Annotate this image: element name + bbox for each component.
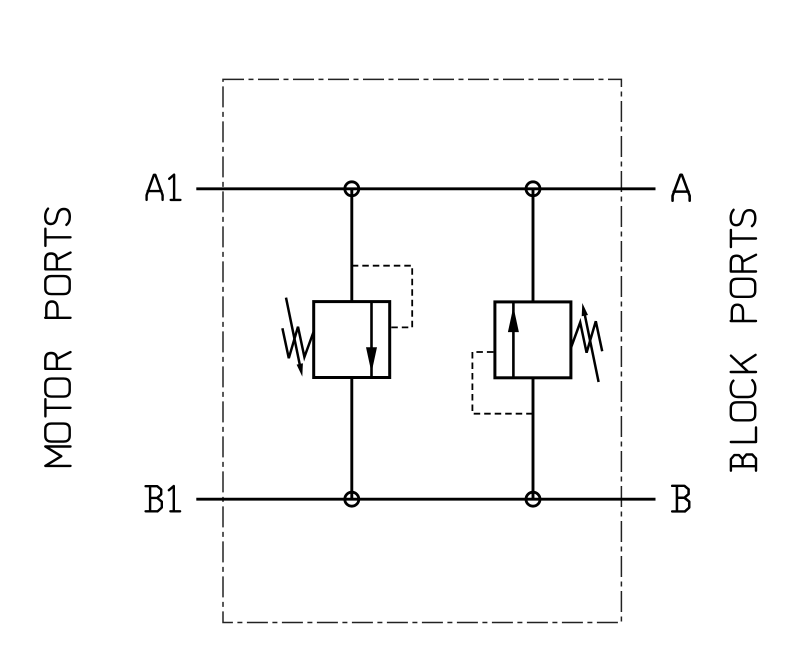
wire: left valve upper branch (350, 189, 353, 302)
relief valve V2 adjustment arrowhead (582, 303, 588, 316)
relief valve V2 spring (571, 321, 602, 353)
relief valve V1 spring (282, 327, 313, 359)
relief valve V1 adjustment arrowhead (297, 363, 303, 376)
relief valve V1 adjustment arrow shaft (286, 298, 300, 366)
label B (672, 486, 689, 512)
relief valve V1 flow arrowhead (down) (366, 347, 377, 373)
node B1 junction circle (345, 492, 359, 506)
relief valve V2 body (495, 302, 571, 378)
label MOTOR PORTS (rotated) (45, 209, 70, 466)
wire: right valve upper branch (532, 189, 535, 302)
wire: right valve lower branch (532, 378, 535, 499)
node B junction circle (526, 492, 540, 506)
label B1 (146, 486, 181, 511)
node A1 junction circle (345, 182, 359, 196)
label A1 (147, 175, 181, 200)
relief valve V1 pilot line (dashed) (352, 266, 412, 328)
label A (673, 175, 690, 201)
relief valve V2 adjustment arrow shaft (585, 314, 599, 382)
relief valve V2 pilot line (dashed) (472, 352, 532, 414)
port line A1-A (196, 187, 655, 190)
node A junction circle (526, 182, 540, 196)
wire: left valve lower branch (350, 378, 353, 500)
manifold block boundary (dash-dot) (223, 79, 621, 622)
relief valve V1 body (314, 302, 390, 378)
port line B1-B (196, 498, 655, 501)
relief valve V2 flow arrowhead (up) (508, 307, 519, 333)
label BLOCK PORTS (rotated) (731, 210, 756, 471)
relief valve V2 flow line (512, 302, 515, 378)
relief valve V1 flow line (370, 302, 373, 378)
